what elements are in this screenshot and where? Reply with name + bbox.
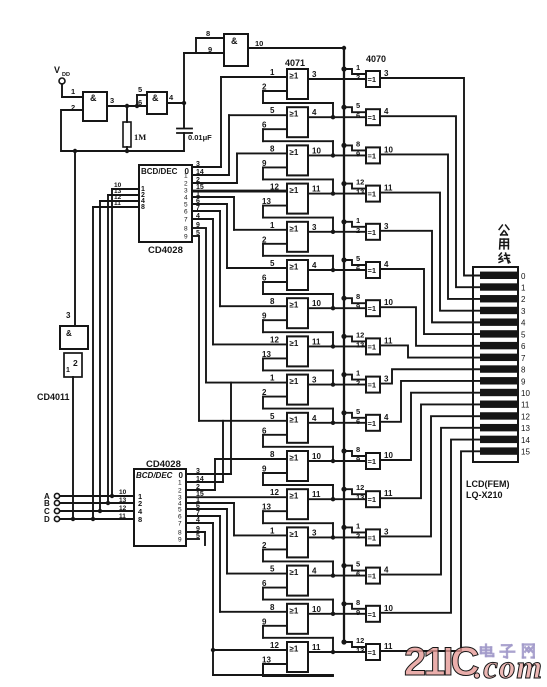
svg-text:1: 1	[356, 216, 360, 225]
svg-text:5: 5	[356, 101, 360, 110]
svg-text:≥1: ≥1	[290, 339, 299, 348]
svg-text:2: 2	[356, 379, 360, 388]
svg-text:11: 11	[312, 185, 321, 194]
svg-text:8: 8	[206, 29, 210, 38]
svg-text:=1: =1	[368, 113, 377, 122]
svg-text:≥1: ≥1	[290, 492, 299, 501]
svg-text:≥1: ≥1	[290, 377, 299, 386]
svg-text:≥1: ≥1	[290, 186, 299, 195]
svg-text:11: 11	[384, 642, 393, 651]
svg-text:11: 11	[312, 490, 321, 499]
svg-text:=1: =1	[368, 648, 377, 657]
svg-text:6: 6	[178, 514, 182, 521]
svg-text:=1: =1	[368, 419, 377, 428]
svg-text:4: 4	[384, 566, 389, 575]
svg-text:8: 8	[356, 445, 360, 454]
svg-text:9: 9	[262, 159, 267, 168]
svg-text:15: 15	[196, 184, 204, 191]
svg-text:3: 3	[66, 311, 71, 320]
svg-text:8: 8	[270, 144, 275, 153]
svg-text:11: 11	[384, 184, 393, 193]
svg-text:=1: =1	[368, 457, 377, 466]
svg-text:≥1: ≥1	[290, 606, 299, 615]
svg-text:8: 8	[270, 450, 275, 459]
svg-text:15: 15	[521, 448, 530, 457]
svg-text:=1: =1	[368, 75, 377, 84]
svg-text:4: 4	[312, 108, 317, 117]
svg-text:6: 6	[184, 209, 188, 216]
svg-text:6: 6	[262, 579, 267, 588]
svg-text:5: 5	[356, 560, 360, 569]
svg-text:2: 2	[178, 488, 182, 495]
svg-text:CD4011: CD4011	[37, 392, 70, 402]
svg-text:4: 4	[184, 195, 188, 202]
svg-text:1: 1	[270, 374, 275, 383]
svg-text:2: 2	[262, 235, 267, 244]
svg-text:13: 13	[262, 503, 271, 512]
svg-text:2: 2	[356, 531, 360, 540]
svg-text:1: 1	[356, 369, 360, 378]
svg-text:≥1: ≥1	[290, 415, 299, 424]
svg-text:6: 6	[356, 111, 360, 120]
svg-text:=1: =1	[368, 190, 377, 199]
svg-text:=1: =1	[368, 495, 377, 504]
svg-text:8: 8	[356, 598, 360, 607]
svg-text:14: 14	[521, 436, 530, 445]
svg-text:5: 5	[196, 230, 200, 237]
svg-text:11: 11	[384, 336, 393, 345]
svg-text:7: 7	[178, 521, 182, 528]
svg-text:6: 6	[138, 98, 142, 107]
svg-text:13: 13	[356, 493, 364, 502]
svg-text:1: 1	[521, 284, 526, 293]
svg-text:≥1: ≥1	[290, 568, 299, 577]
svg-text:4: 4	[196, 213, 200, 220]
svg-text:11: 11	[312, 337, 321, 346]
svg-text:3: 3	[196, 468, 200, 475]
svg-text:4: 4	[196, 517, 200, 524]
svg-text:10: 10	[312, 146, 321, 155]
svg-text:8: 8	[270, 603, 275, 612]
svg-text:14: 14	[196, 169, 204, 176]
svg-text:3: 3	[110, 96, 114, 105]
svg-text:10: 10	[312, 605, 321, 614]
svg-text:9: 9	[356, 149, 360, 158]
svg-text:5: 5	[270, 565, 275, 574]
svg-text:=1: =1	[368, 572, 377, 581]
svg-text:2: 2	[356, 73, 360, 82]
svg-text:9: 9	[521, 377, 526, 386]
svg-text:9: 9	[196, 526, 200, 533]
svg-text:8: 8	[138, 515, 142, 524]
svg-text:4071: 4071	[285, 58, 305, 68]
svg-text:9: 9	[262, 617, 267, 626]
svg-text:LQ-X210: LQ-X210	[466, 490, 503, 500]
svg-text:13: 13	[356, 646, 364, 655]
svg-text:13: 13	[521, 424, 530, 433]
svg-text:10: 10	[521, 389, 530, 398]
svg-text:1M: 1M	[134, 132, 146, 142]
svg-text:8: 8	[270, 297, 275, 306]
svg-text:2: 2	[196, 484, 200, 491]
svg-text:≥1: ≥1	[290, 645, 299, 654]
svg-text:21IC: 21IC	[404, 640, 479, 684]
svg-text:1: 1	[270, 221, 275, 230]
svg-text:0: 0	[521, 272, 526, 281]
svg-text:8: 8	[356, 139, 360, 148]
svg-text:12: 12	[356, 483, 364, 492]
svg-text:10: 10	[312, 299, 321, 308]
svg-text:3: 3	[312, 528, 317, 537]
svg-text:5: 5	[270, 106, 275, 115]
svg-text:10: 10	[384, 298, 393, 307]
svg-text:BCD/DEC: BCD/DEC	[141, 167, 178, 176]
svg-text:2: 2	[356, 226, 360, 235]
svg-text:12: 12	[270, 335, 279, 344]
svg-text:2: 2	[184, 181, 188, 188]
svg-text:&: &	[66, 329, 72, 338]
svg-text:13: 13	[119, 497, 127, 504]
svg-text:8: 8	[178, 530, 182, 537]
svg-text:9: 9	[356, 455, 360, 464]
svg-text:12: 12	[356, 178, 364, 187]
svg-text:=1: =1	[368, 610, 377, 619]
svg-text:10: 10	[255, 39, 263, 48]
svg-text:4: 4	[312, 567, 317, 576]
svg-text:10: 10	[312, 452, 321, 461]
svg-text:≥1: ≥1	[290, 454, 299, 463]
svg-text:10: 10	[384, 604, 393, 613]
svg-text:2: 2	[73, 358, 78, 368]
svg-text:7: 7	[196, 205, 200, 212]
svg-text:4: 4	[312, 261, 317, 270]
svg-text:5: 5	[138, 85, 142, 94]
svg-text:13: 13	[262, 350, 271, 359]
svg-text:=1: =1	[368, 228, 377, 237]
svg-text:4: 4	[384, 260, 389, 269]
svg-text:5: 5	[521, 330, 526, 339]
svg-text:8: 8	[521, 366, 526, 375]
svg-text:1: 1	[270, 526, 275, 535]
svg-text:1: 1	[356, 63, 360, 72]
svg-text:10: 10	[384, 145, 393, 154]
svg-text:1: 1	[270, 68, 275, 77]
svg-text:8: 8	[141, 204, 145, 211]
svg-text:13: 13	[356, 340, 364, 349]
svg-text:12: 12	[270, 641, 279, 650]
svg-text:7: 7	[196, 510, 200, 517]
svg-text:10: 10	[119, 489, 127, 496]
svg-text:5: 5	[270, 412, 275, 421]
svg-text:9: 9	[184, 234, 188, 241]
svg-text:12: 12	[356, 330, 364, 339]
svg-text:1: 1	[184, 173, 188, 180]
svg-text:1: 1	[196, 191, 200, 198]
svg-text:1: 1	[178, 480, 182, 487]
svg-text:=1: =1	[368, 342, 377, 351]
svg-text:11: 11	[119, 513, 126, 520]
svg-text:CD4028: CD4028	[148, 245, 183, 256]
svg-text:7: 7	[184, 217, 188, 224]
svg-text:3: 3	[196, 161, 200, 168]
svg-text:3: 3	[312, 376, 317, 385]
svg-text:3: 3	[384, 527, 389, 536]
svg-text:12: 12	[356, 636, 364, 645]
svg-text:≥1: ≥1	[290, 530, 299, 539]
svg-text:6: 6	[262, 426, 267, 435]
svg-text:≥1: ≥1	[290, 72, 299, 81]
svg-text:=1: =1	[368, 266, 377, 275]
svg-text:11: 11	[312, 643, 321, 652]
svg-text:8: 8	[184, 226, 188, 233]
svg-text:=1: =1	[368, 533, 377, 542]
svg-text:10: 10	[384, 451, 393, 460]
svg-text:1: 1	[66, 367, 70, 374]
svg-text:6: 6	[196, 198, 200, 205]
svg-text:DD: DD	[62, 72, 70, 78]
svg-text:6: 6	[356, 570, 360, 579]
svg-text:=1: =1	[368, 151, 377, 160]
svg-text:5: 5	[356, 407, 360, 416]
svg-text:≥1: ≥1	[290, 263, 299, 272]
svg-text:≥1: ≥1	[290, 110, 299, 119]
svg-text:2: 2	[262, 388, 267, 397]
svg-text:11: 11	[384, 489, 393, 498]
svg-text:V: V	[54, 65, 60, 75]
svg-text:8: 8	[356, 292, 360, 301]
svg-text:2: 2	[196, 177, 200, 184]
svg-text:3: 3	[184, 188, 188, 195]
svg-text:0.01μF: 0.01μF	[188, 133, 212, 142]
svg-text:D: D	[44, 515, 50, 524]
svg-text:6: 6	[262, 274, 267, 283]
svg-text:5: 5	[184, 202, 188, 209]
svg-text:5: 5	[178, 507, 182, 514]
svg-text:6: 6	[521, 342, 526, 351]
svg-text:LCD(FEM): LCD(FEM)	[466, 479, 510, 489]
svg-text:3: 3	[521, 307, 526, 316]
svg-text:&: &	[152, 93, 159, 103]
svg-text:6: 6	[356, 264, 360, 273]
svg-text:6: 6	[196, 503, 200, 510]
svg-text:12: 12	[270, 488, 279, 497]
svg-text:9: 9	[208, 45, 212, 54]
svg-text:6: 6	[262, 121, 267, 130]
svg-text:2: 2	[262, 541, 267, 550]
svg-text:4: 4	[384, 413, 389, 422]
svg-text:3: 3	[312, 223, 317, 232]
svg-text:1: 1	[71, 87, 75, 96]
svg-text:&: &	[90, 93, 97, 103]
svg-text:2: 2	[262, 83, 267, 92]
svg-text:BCD/DEC: BCD/DEC	[136, 471, 173, 480]
svg-text:3: 3	[384, 69, 389, 78]
svg-text:1: 1	[356, 521, 360, 530]
svg-text:4: 4	[521, 319, 526, 328]
svg-text:≥1: ≥1	[290, 224, 299, 233]
svg-text:≥1: ≥1	[290, 301, 299, 310]
svg-text:13: 13	[262, 197, 271, 206]
svg-text:14: 14	[196, 476, 204, 483]
svg-text:7: 7	[521, 354, 526, 363]
svg-text:4: 4	[384, 107, 389, 116]
svg-text:4070: 4070	[366, 54, 386, 64]
svg-text:9: 9	[262, 465, 267, 474]
svg-text:12: 12	[521, 412, 530, 421]
svg-text:9: 9	[262, 312, 267, 321]
svg-text:&: &	[231, 36, 238, 46]
svg-text:5: 5	[196, 533, 200, 540]
svg-text:2: 2	[521, 295, 526, 304]
svg-text:11: 11	[521, 401, 530, 410]
svg-text:9: 9	[196, 222, 200, 229]
svg-text:.com: .com	[474, 650, 543, 686]
svg-text:9: 9	[356, 608, 360, 617]
svg-text:5: 5	[270, 259, 275, 268]
svg-text:9: 9	[356, 302, 360, 311]
svg-text:3: 3	[312, 70, 317, 79]
svg-text:11: 11	[114, 200, 121, 207]
svg-text:3: 3	[384, 375, 389, 384]
svg-text:3: 3	[384, 222, 389, 231]
svg-text:=1: =1	[368, 304, 377, 313]
svg-text:≥1: ≥1	[290, 148, 299, 157]
svg-text:4: 4	[312, 414, 317, 423]
svg-text:=1: =1	[368, 381, 377, 390]
svg-text:13: 13	[356, 188, 364, 197]
svg-text:5: 5	[356, 254, 360, 263]
svg-text:9: 9	[178, 537, 182, 544]
svg-text:12: 12	[119, 505, 127, 512]
svg-text:6: 6	[356, 417, 360, 426]
